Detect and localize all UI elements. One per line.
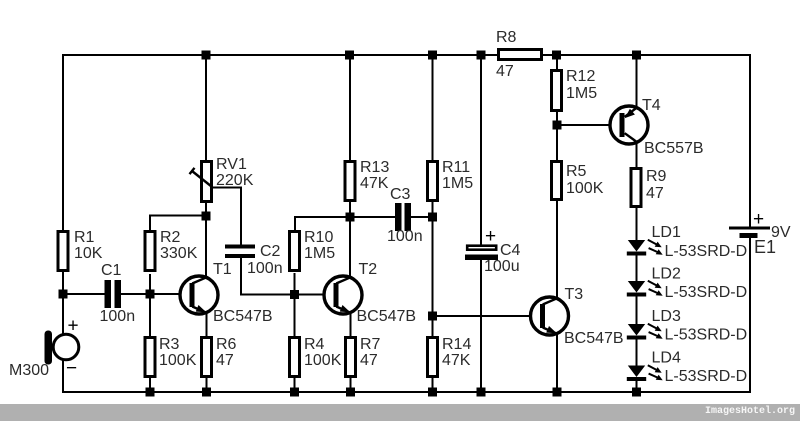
svg-text:1M5: 1M5 xyxy=(566,85,597,102)
junction T3 base / R14 node xyxy=(428,312,437,321)
junction ground at LED chain xyxy=(632,388,641,397)
junction top rail at C4 xyxy=(477,51,486,60)
wire LD1 to LD2 xyxy=(636,255,638,282)
junction R12 / R5 / T4 base node xyxy=(553,121,562,130)
svg-text:10K: 10K xyxy=(74,245,103,262)
svg-text:T4: T4 xyxy=(642,97,661,114)
svg-text:330K: 330K xyxy=(160,245,198,262)
microphone M300 xyxy=(45,331,79,365)
svg-text:R5: R5 xyxy=(566,163,587,180)
svg-text:T2: T2 xyxy=(359,261,378,278)
resistor R9 xyxy=(631,169,641,207)
junction R11 / C3 node xyxy=(428,213,437,222)
wire T2 emitter to R7 xyxy=(350,312,352,337)
wire top supply rail xyxy=(63,54,751,56)
svg-text:R4: R4 xyxy=(304,336,325,353)
svg-text:LD1: LD1 xyxy=(652,224,681,241)
svg-text:R3: R3 xyxy=(159,336,180,353)
resistor R8 xyxy=(499,50,542,60)
svg-text:BC557B: BC557B xyxy=(644,140,704,157)
junction top rail at R12 xyxy=(552,51,561,60)
wire R4 bottom lead xyxy=(294,378,296,392)
junction ground at R4 xyxy=(290,388,299,397)
svg-text:R13: R13 xyxy=(360,159,389,176)
wire C1 to T1 base xyxy=(121,293,191,295)
svg-text:R12: R12 xyxy=(566,68,595,85)
junction ground at R14 xyxy=(428,388,437,397)
svg-text:R2: R2 xyxy=(160,229,181,246)
transistor T4 pnp xyxy=(610,106,648,144)
junction ground at C4 xyxy=(477,388,486,397)
transistor T2 xyxy=(324,276,362,314)
svg-text:R8: R8 xyxy=(496,29,517,46)
wire R2 top vertical xyxy=(150,216,206,231)
resistor R14 xyxy=(428,338,438,377)
svg-text:C4: C4 xyxy=(500,242,521,259)
wire R14 bottom lead xyxy=(432,378,434,392)
resistor R12 xyxy=(552,71,562,111)
wire R11 bottom through T3 base node xyxy=(432,202,434,337)
watermark text ImagesHotel.org xyxy=(705,406,795,417)
svg-text:C3: C3 xyxy=(390,186,411,203)
junction R13 / C3 / R10 node xyxy=(346,213,355,222)
wire R12 top lead xyxy=(556,55,558,70)
wire R2/R3 junction vertical xyxy=(149,274,151,336)
wire R11 top lead xyxy=(432,55,434,161)
svg-text:LD2: LD2 xyxy=(652,265,681,282)
wire R13 top lead xyxy=(349,55,351,161)
junction top rail at R11 xyxy=(428,51,437,60)
junction ground at T3 emitter xyxy=(553,388,562,397)
svg-text:BC547B: BC547B xyxy=(213,308,273,325)
svg-text:−: − xyxy=(66,358,77,379)
led LD1 xyxy=(627,240,663,256)
svg-text:47: 47 xyxy=(216,352,234,369)
svg-text:LD4: LD4 xyxy=(652,350,681,367)
svg-text:R14: R14 xyxy=(442,336,471,353)
resistor R2 xyxy=(145,232,155,271)
capacitor C2 xyxy=(225,245,255,249)
svg-text:R7: R7 xyxy=(360,336,381,353)
junction RV1 bottom / R2 top node xyxy=(202,212,211,221)
svg-text:1M5: 1M5 xyxy=(304,245,335,262)
svg-text:L-53SRD-D: L-53SRD-D xyxy=(665,284,748,301)
capacitor C4 electrolytic xyxy=(465,246,498,260)
svg-text:T1: T1 xyxy=(213,261,232,278)
wire T1 emitter to R6 xyxy=(206,312,208,337)
svg-text:+: + xyxy=(753,209,764,230)
wire base node to R5 xyxy=(556,125,558,161)
wire T3 base horizontal xyxy=(433,315,542,317)
svg-text:100n: 100n xyxy=(387,228,423,245)
svg-text:100K: 100K xyxy=(566,180,604,197)
wire RV1 wiper tap to C2 xyxy=(212,188,241,246)
wire R3 bottom lead xyxy=(149,378,151,392)
svg-text:R1: R1 xyxy=(74,229,95,246)
svg-text:+: + xyxy=(485,226,496,247)
svg-text:47: 47 xyxy=(496,63,514,80)
wire RV1 top lead xyxy=(205,55,207,161)
resistor R6 xyxy=(202,338,212,377)
wire R13 node to C3 xyxy=(350,216,395,218)
svg-text:R10: R10 xyxy=(304,229,333,246)
capacitor C3 xyxy=(395,203,402,231)
wire LD4 to ground xyxy=(636,380,638,392)
led LD3 xyxy=(627,324,663,340)
svg-text:BC547B: BC547B xyxy=(564,330,624,347)
resistor R3 xyxy=(145,338,155,377)
svg-text:47: 47 xyxy=(360,352,378,369)
resistor R13 xyxy=(345,162,355,201)
svg-text:R11: R11 xyxy=(442,159,470,176)
junction C1 / R2 / R3 node xyxy=(146,290,155,299)
wire C4 top lead xyxy=(480,55,482,245)
wire left rail xyxy=(62,54,64,393)
wire R6 bottom lead xyxy=(206,378,208,392)
wire R7 bottom lead xyxy=(350,378,352,392)
led LD4 xyxy=(627,365,663,381)
wire LD3 to LD4 xyxy=(636,339,638,366)
svg-text:100K: 100K xyxy=(304,352,342,369)
wire LD2 to LD3 xyxy=(636,296,638,325)
svg-text:100n: 100n xyxy=(247,260,283,277)
wire T4 base horizontal xyxy=(557,124,620,126)
wire R9 to LD1 xyxy=(636,207,638,241)
svg-text:R9: R9 xyxy=(646,168,667,185)
svg-text:47: 47 xyxy=(646,185,664,202)
wire T4 emitter to top rail xyxy=(636,55,638,108)
wire R4 top lead xyxy=(294,294,296,337)
wire R13 bottom to T2 collector xyxy=(349,202,351,278)
svg-text:C1: C1 xyxy=(101,262,122,279)
svg-text:47K: 47K xyxy=(442,352,471,369)
wire T3 emitter to ground xyxy=(556,333,558,392)
svg-text:100K: 100K xyxy=(159,352,197,369)
svg-text:L-53SRD-D: L-53SRD-D xyxy=(665,368,748,385)
watermark bar xyxy=(0,404,800,421)
junction top rail at T4 emitter xyxy=(632,51,641,60)
svg-text:E1: E1 xyxy=(754,237,776,257)
wire bottom ground rail xyxy=(63,391,750,393)
resistor R4 xyxy=(290,338,300,377)
svg-text:BC547B: BC547B xyxy=(357,308,417,325)
svg-text:+: + xyxy=(68,316,79,337)
transistor T1 xyxy=(180,276,218,314)
svg-text:C2: C2 xyxy=(260,243,281,260)
junction ground at R7 xyxy=(346,388,355,397)
wire T2 base node to T2 xyxy=(295,294,336,296)
wire RV1 bottom to T1 collector xyxy=(205,203,207,278)
resistor R5 xyxy=(552,162,562,200)
resistor R11 xyxy=(428,162,438,201)
led LD2 xyxy=(627,281,663,297)
svg-text:100n: 100n xyxy=(100,308,136,325)
trimmer RV1 xyxy=(202,162,212,202)
junction mic / R1 / C1 node xyxy=(59,290,68,299)
svg-text:1M5: 1M5 xyxy=(442,175,473,192)
wire R12 bottom to base node of T4 xyxy=(556,112,558,125)
resistor R10 xyxy=(290,232,300,271)
wire C4 bottom lead xyxy=(480,260,482,392)
svg-text:100u: 100u xyxy=(484,258,520,275)
junction R10 / R4 / T2 base node xyxy=(290,290,299,299)
wire mic to C1 signal segment xyxy=(63,293,105,295)
junction top rail at R13 xyxy=(345,51,354,60)
wire T4 collector to R9 xyxy=(636,142,638,167)
wire R5 bottom to T3 collector xyxy=(556,200,558,299)
svg-text:M300: M300 xyxy=(9,362,49,379)
junction top rail at RV1 xyxy=(202,51,211,60)
resistor R1 xyxy=(58,232,68,271)
wire right battery rail lower xyxy=(749,236,751,393)
svg-text:LD3: LD3 xyxy=(652,308,681,325)
wire right battery rail upper xyxy=(749,54,751,228)
svg-text:RV1: RV1 xyxy=(216,156,247,173)
svg-text:47K: 47K xyxy=(360,175,389,192)
wire C3 to R11 node xyxy=(411,216,433,218)
junction ground at R6 xyxy=(202,388,211,397)
capacitor C1 xyxy=(105,280,112,308)
svg-text:L-53SRD-D: L-53SRD-D xyxy=(665,326,748,343)
junction ground at R3 xyxy=(146,388,155,397)
svg-text:T3: T3 xyxy=(565,286,584,303)
resistor R7 xyxy=(346,338,356,377)
battery E1 xyxy=(729,227,770,239)
svg-text:R6: R6 xyxy=(216,336,237,353)
wire R10 top lead to R13 node xyxy=(295,217,350,230)
transistor T3 xyxy=(531,297,569,335)
svg-text:220K: 220K xyxy=(216,172,254,189)
wire C2 bottom to T2 base node xyxy=(241,258,295,295)
wire R10 bottom lead xyxy=(294,273,296,295)
svg-text:L-53SRD-D: L-53SRD-D xyxy=(665,243,748,260)
